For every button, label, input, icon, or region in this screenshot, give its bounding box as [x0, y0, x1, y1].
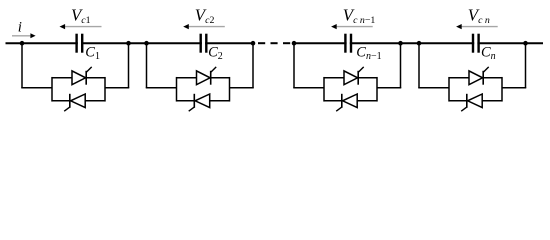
svg-text:Cn−1: Cn−1 — [356, 45, 381, 62]
svg-text:C2: C2 — [208, 45, 223, 62]
svg-text:Vc1: Vc1 — [71, 5, 91, 26]
svg-text:C1: C1 — [85, 45, 100, 62]
svg-text:i: i — [18, 19, 22, 35]
svg-text:Cn: Cn — [481, 45, 496, 62]
svg-text:Vc2: Vc2 — [195, 5, 215, 26]
svg-text:Vc n−1: Vc n−1 — [343, 5, 376, 26]
svg-text:Vc n: Vc n — [468, 5, 490, 26]
